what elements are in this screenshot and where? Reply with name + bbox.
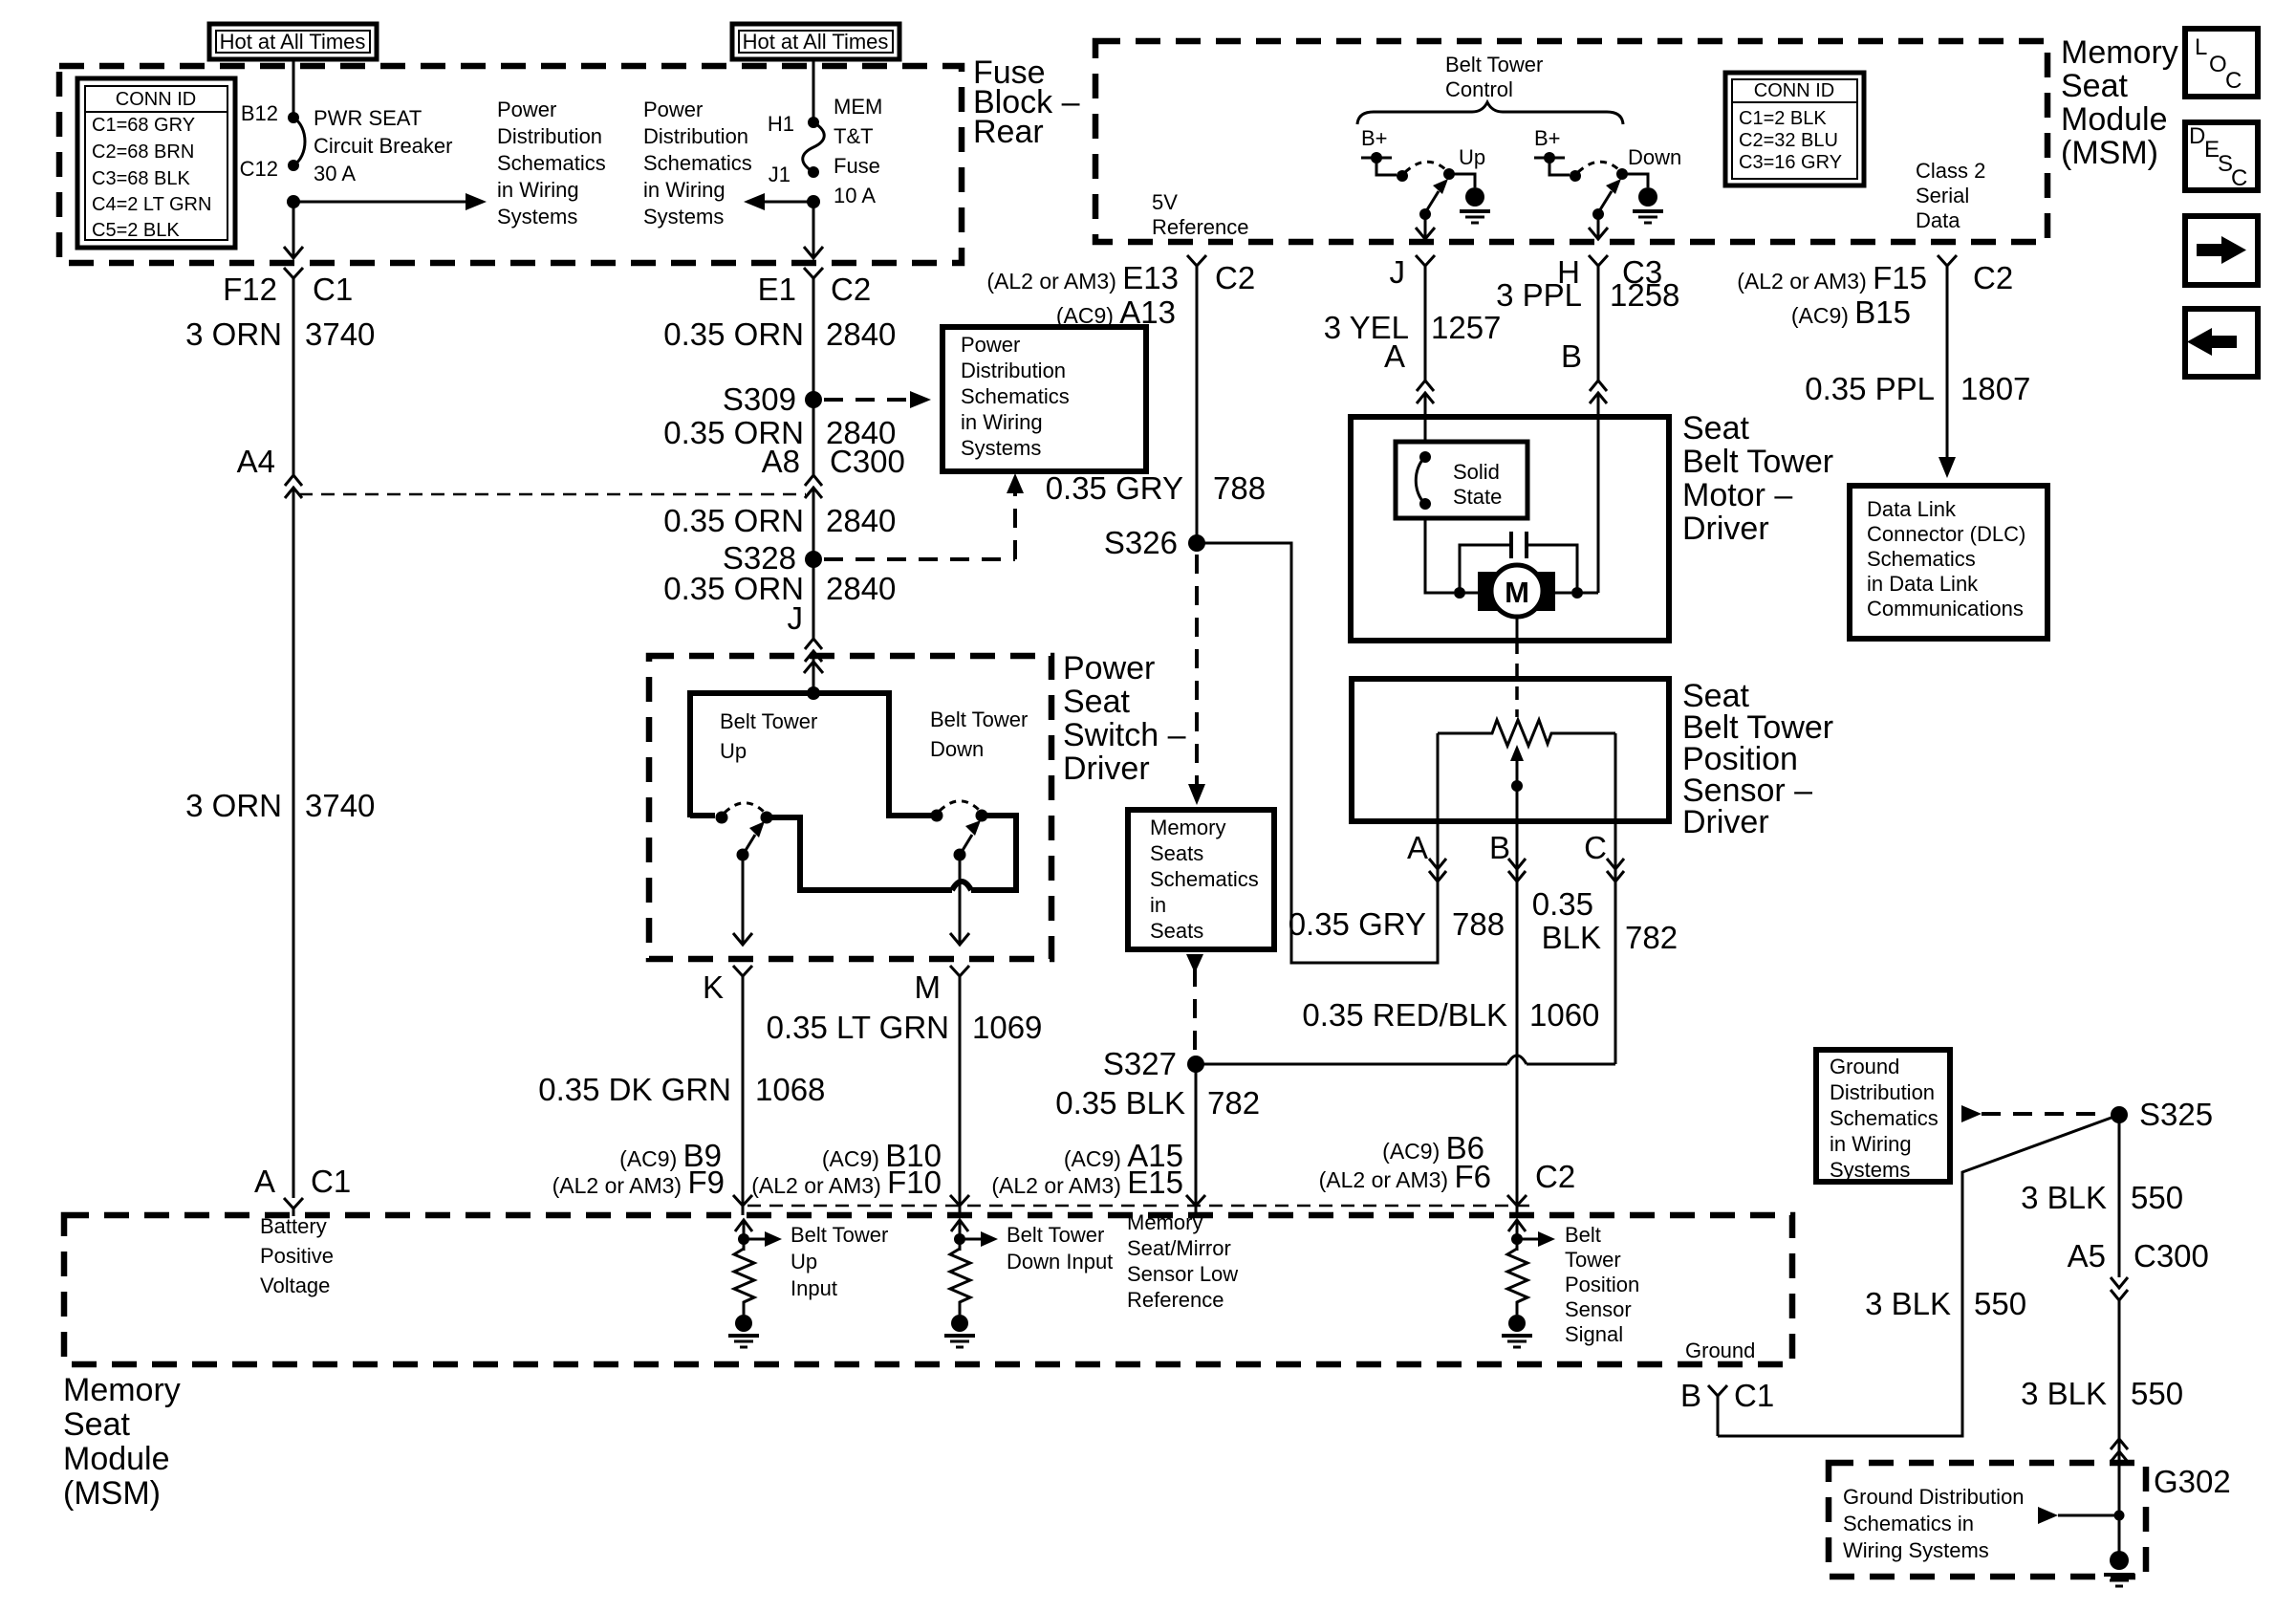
Data Link Connector reference box (1850, 486, 2047, 639)
wire down switch output to M (959, 855, 962, 945)
switch pivot interconnect with hop (767, 817, 952, 890)
capacitor across motor (1460, 532, 1577, 593)
svg-text:0.35 RED/BLK: 0.35 RED/BLK (1302, 997, 1507, 1033)
svg-text:S309: S309 (723, 381, 796, 417)
Memory Seat Module top dashed box (1095, 41, 2047, 242)
connector C3 pin J symbol (1416, 255, 1435, 382)
connector chevrons sensor pin A (1429, 859, 1446, 882)
svg-text:L: L (2195, 34, 2207, 60)
svg-text:3 PPL: 3 PPL (1496, 277, 1582, 313)
wire A into motor box (1424, 393, 1427, 442)
connector chevrons on yellow wire A (1417, 381, 1434, 403)
dashed wire S326 to memory seats reference (1195, 555, 1199, 786)
svg-text:J: J (1390, 254, 1406, 290)
mechanical link motor to position sensor (dashed) (1515, 641, 1519, 717)
circuit breaker PWR SEAT 30A (288, 112, 305, 171)
arrow below memory seats box (1186, 954, 1203, 973)
svg-text:C1: C1 (1734, 1378, 1774, 1413)
svg-text:0.35 ORN: 0.35 ORN (663, 571, 804, 606)
svg-text:Up: Up (1459, 145, 1485, 169)
dashed wire memory seats to S327 (1193, 968, 1197, 1052)
arrow tap inside G302 (2038, 1507, 2125, 1524)
svg-text:M: M (1505, 576, 1529, 609)
svg-text:Belt Tower: Belt Tower (1445, 53, 1543, 76)
svg-text:C300: C300 (830, 444, 905, 479)
belt tower down input: resistor (950, 1249, 970, 1315)
motor left node (1454, 587, 1465, 599)
connector pin K symbol (733, 966, 752, 1206)
down switch wire to ground (1622, 174, 1648, 187)
svg-text:C5=2 BLK: C5=2 BLK (92, 220, 180, 241)
svg-text:0.35 GRY: 0.35 GRY (1289, 906, 1426, 942)
svg-text:2840: 2840 (826, 571, 896, 606)
down switch fixed contact (931, 810, 943, 822)
svg-text:Belt Tower: Belt Tower (930, 708, 1028, 731)
motor M (1460, 565, 1571, 617)
dashed arrow S309 to power distribution box (824, 391, 931, 408)
svg-text:Belt Tower: Belt Tower (720, 709, 817, 733)
wire S326 to sensor A feed (1197, 542, 1291, 545)
svg-text:550: 550 (2131, 1376, 2183, 1411)
svg-text:A5: A5 (2068, 1238, 2106, 1274)
wire motor right to B (1577, 592, 1598, 595)
svg-text:550: 550 (2131, 1180, 2183, 1215)
svg-text:3 BLK: 3 BLK (2021, 1376, 2107, 1411)
Hot at All Times label box (left) (209, 24, 377, 59)
open arrow at switch exit K (733, 933, 752, 945)
up switch fixed contact (716, 812, 728, 824)
svg-text:0.35 DK GRN: 0.35 DK GRN (538, 1072, 731, 1107)
svg-text:3 BLK: 3 BLK (1865, 1286, 1951, 1321)
connector C2 pin F6 symbol (1507, 1195, 1527, 1215)
wire S327 to sensor C with hop over B (1196, 1056, 1615, 1064)
open arrow at fuse block exit (284, 247, 303, 258)
position sensor signal input: arrow up (1508, 1220, 1526, 1251)
down switch movable arm (1599, 179, 1621, 211)
svg-text:F12: F12 (223, 272, 277, 307)
arrow into DLC box (1939, 457, 1956, 478)
svg-text:550: 550 (1974, 1286, 2026, 1321)
svg-text:1807: 1807 (1960, 371, 2030, 406)
svg-text:3 ORN: 3 ORN (185, 316, 282, 352)
LOC nav box (2185, 29, 2258, 97)
svg-text:C1=2 BLK: C1=2 BLK (1739, 108, 1827, 129)
Seat Belt Tower Position Sensor box (1352, 679, 1669, 821)
Power Seat Switch dashed box (649, 656, 1051, 959)
belt tower up input: ground (728, 1315, 759, 1347)
open arrow at switch exit M (950, 933, 969, 945)
svg-text:C2: C2 (831, 272, 871, 307)
down switch pivot contact (1616, 168, 1628, 180)
DESC nav box (2185, 122, 2258, 191)
B+ terminal (down switch) (1534, 152, 1570, 175)
svg-text:0.35: 0.35 (1532, 886, 1593, 922)
connector C2 pin E1 symbol (804, 268, 823, 316)
belt tower down input node (954, 1233, 965, 1245)
CONN ID table (MSM) (1725, 73, 1864, 185)
motor output shaft wire (1516, 617, 1519, 641)
connector pin M symbol (950, 966, 969, 1206)
down switch dashed arc (940, 801, 979, 811)
svg-text:1258: 1258 (1610, 277, 1679, 313)
Solid State box (1396, 442, 1527, 518)
junction node on breaker output (287, 195, 300, 208)
svg-text:1060: 1060 (1529, 997, 1599, 1033)
svg-text:C2: C2 (1535, 1159, 1575, 1194)
wire from Hot box 1 down to breaker (292, 59, 295, 118)
svg-text:A: A (1384, 338, 1405, 374)
svg-text:C2=68 BRN: C2=68 BRN (92, 142, 194, 163)
belt tower up input: arrow right (744, 1231, 782, 1247)
svg-text:B12: B12 (241, 101, 278, 125)
wire sensor C down to S327 run (1614, 821, 1617, 1064)
splice S327 (1187, 1056, 1204, 1073)
svg-text:0.35 PPL: 0.35 PPL (1805, 371, 1935, 406)
svg-text:S327: S327 (1103, 1046, 1177, 1081)
up switch pivot contact (761, 812, 773, 824)
junction node on fuse output (807, 195, 820, 208)
motor right node (1571, 587, 1583, 599)
up switch pivot contact (1443, 168, 1455, 180)
svg-text:K: K (703, 969, 724, 1005)
belt tower up input node (738, 1233, 749, 1245)
svg-text:S326: S326 (1104, 525, 1178, 560)
svg-text:B+: B+ (1361, 126, 1388, 150)
svg-text:0.35 BLK: 0.35 BLK (1055, 1085, 1185, 1121)
connector C2 pin F15 symbol (1938, 255, 1957, 457)
svg-text:B+: B+ (1534, 126, 1561, 150)
dashed wire S328 to power distribution box with up arrow (824, 473, 1024, 559)
up switch dashed actuation arc (1405, 162, 1445, 172)
svg-text:0.35 ORN: 0.35 ORN (663, 503, 804, 538)
svg-text:Hot at All Times: Hot at All Times (220, 30, 366, 54)
svg-text:C3=16 GRY: C3=16 GRY (1739, 152, 1842, 173)
svg-text:H1: H1 (768, 112, 794, 136)
down switch arm node (1592, 208, 1604, 220)
connector C2 pin F9 symbol (733, 1195, 752, 1215)
dashed arrow ground distribution to S325 (1961, 1105, 2108, 1122)
ground symbol (down switch) (1633, 187, 1663, 223)
sensor lead A inside box (1437, 733, 1440, 821)
splice S325 (2111, 1106, 2128, 1123)
svg-text:2840: 2840 (826, 316, 896, 352)
ground symbol (up switch) (1460, 187, 1490, 223)
wire arrow to power distribution (right) (293, 193, 487, 210)
switch feed rail (690, 693, 931, 817)
svg-text:State: State (1453, 485, 1502, 509)
position sensor resistor element (1438, 720, 1615, 746)
svg-text:CONN ID: CONN ID (1754, 80, 1834, 101)
wire 3 ORN 3740 lower (292, 488, 295, 1198)
connector A5 chevrons (C300) (2111, 1277, 2128, 1300)
wire sensor A to S326 run (1197, 543, 1438, 963)
connector C1 pin B symbol (1708, 1385, 1727, 1436)
svg-text:C1: C1 (311, 1164, 351, 1199)
svg-text:3740: 3740 (305, 788, 375, 823)
down switch pivot contact (976, 810, 988, 822)
svg-text:A8: A8 (762, 444, 800, 479)
sensor lead C inside box (1614, 733, 1617, 821)
wire from Hot box 2 down to fuse (812, 59, 815, 122)
down switch dashed actuation arc (1578, 162, 1618, 172)
svg-text:C3=68 BLK: C3=68 BLK (92, 168, 191, 189)
svg-text:M: M (915, 969, 942, 1005)
Ground Distribution Schematics reference box (1816, 1050, 1950, 1182)
svg-text:S325: S325 (2139, 1097, 2213, 1132)
Power Distribution Schematics reference box (942, 327, 1146, 471)
Memory Seats Schematics reference box (1128, 810, 1274, 949)
svg-text:C2: C2 (1973, 260, 2013, 295)
svg-text:3 BLK: 3 BLK (2021, 1180, 2107, 1215)
connector chevrons on purple wire B (1590, 381, 1607, 403)
svg-text:0.35 LT GRN: 0.35 LT GRN (767, 1010, 949, 1045)
switch feed node (807, 686, 820, 700)
connector chevrons sensor pin B (1508, 859, 1526, 882)
feed wire to switch common (812, 662, 815, 693)
sensor wiper arrow (1510, 745, 1524, 821)
svg-text:Control: Control (1445, 77, 1513, 101)
svg-text:Down: Down (1628, 145, 1681, 169)
svg-text:788: 788 (1452, 906, 1505, 942)
connector C2 dashed boundary line (747, 1205, 1529, 1208)
svg-text:C4=2 LT GRN: C4=2 LT GRN (92, 194, 211, 215)
fuse MEM T&amp;T 10A (803, 117, 825, 178)
svg-text:A: A (254, 1164, 275, 1199)
svg-text:Hot at All Times: Hot at All Times (743, 30, 889, 54)
wire into power seat switch (812, 651, 815, 693)
up switch arm node (737, 849, 749, 861)
Belt Tower Control brace (1357, 102, 1623, 124)
connector A8 chevrons (C300) (805, 475, 822, 498)
svg-text:1257: 1257 (1431, 310, 1501, 345)
Seat Belt Tower Motor box (1351, 417, 1669, 641)
belt tower up input: arrow up (735, 1220, 752, 1251)
Memory Seat Module bottom dashed box (64, 1215, 1792, 1364)
ground symbol G302 (2104, 1515, 2134, 1586)
svg-text:C2: C2 (1215, 260, 1255, 295)
svg-text:Ground: Ground (1685, 1339, 1755, 1362)
open arrow at fuse block exit (E1) (804, 247, 823, 258)
connector chevrons at switch pin J (805, 639, 822, 662)
wire arrow to power distribution (left) (744, 193, 813, 210)
feed arrow inside switch box (804, 662, 823, 673)
svg-text:A4: A4 (237, 444, 275, 479)
ground wire B C1 to S325 (1718, 1115, 2119, 1436)
svg-text:0.35 GRY: 0.35 GRY (1046, 470, 1183, 506)
svg-text:J: J (788, 600, 804, 636)
down switch arm node (954, 849, 966, 861)
wire up switch output to K (742, 855, 745, 945)
svg-text:BatteryPositiveVoltage: BatteryPositiveVoltage (260, 1214, 334, 1297)
svg-text:Down: Down (930, 737, 984, 761)
solid state switch contacts (1416, 451, 1431, 510)
svg-text:Up: Up (720, 739, 747, 763)
connector C2 pin F10 symbol (950, 1195, 969, 1215)
dashed connector line C300 A4 to A8 (299, 493, 806, 496)
position sensor signal input: ground (1502, 1315, 1532, 1347)
position sensor signal input: arrow right (1517, 1231, 1555, 1247)
svg-text:1069: 1069 (972, 1010, 1042, 1045)
svg-text:O: O (2209, 52, 2227, 77)
svg-text:2840: 2840 (826, 503, 896, 538)
CONN ID table (fuse block) (77, 78, 235, 248)
wire 0.35 ORN 2840 (1) (812, 316, 815, 400)
arrow into memory seats box (1188, 784, 1205, 805)
svg-text:Solid: Solid (1453, 460, 1500, 484)
belt tower down input: arrow up (951, 1220, 968, 1251)
svg-text:782: 782 (1625, 920, 1678, 955)
left-arrow nav box (2185, 309, 2258, 377)
wire down from junction to fuse block edge (292, 202, 295, 256)
svg-text:C2=32 BLU: C2=32 BLU (1739, 130, 1838, 151)
wire from down switch down to MSM edge (1597, 214, 1600, 237)
up switch movable arm (745, 821, 765, 852)
wire solid state to motor (1425, 518, 1454, 593)
Hot at All Times label box (right) (732, 24, 899, 59)
connector C1 pin A symbol (284, 1198, 303, 1216)
svg-text:C1=68 GRY: C1=68 GRY (92, 115, 195, 136)
G302 dashed box (1829, 1463, 2146, 1577)
svg-text:J1: J1 (769, 163, 791, 186)
position sensor signal input node (1511, 1233, 1523, 1245)
svg-text:C: C (2231, 165, 2247, 191)
connector C1 pin F12 symbol (284, 268, 303, 316)
splice S326 (1188, 534, 1205, 552)
wire S325 down to C300 (2118, 1115, 2121, 1277)
wire C300 down to G302 (2118, 1300, 2121, 1515)
wire 3 ORN 3740 upper (292, 316, 295, 475)
wire sensor B down to C2 (1516, 821, 1519, 1206)
wire 0.35 ORN 2840 (4) (812, 559, 815, 639)
svg-text:B: B (1489, 830, 1510, 865)
down switch movable arm (962, 820, 981, 852)
svg-text:A: A (1407, 830, 1428, 865)
svg-text:E1: E1 (758, 272, 796, 307)
down switch fixed contact (1570, 170, 1581, 182)
up switch wire to ground (1449, 174, 1475, 187)
belt tower down input: arrow right (960, 1231, 998, 1247)
svg-text:3740: 3740 (305, 316, 375, 352)
connector A4 chevrons (C300) (285, 475, 302, 498)
svg-text:1068: 1068 (755, 1072, 825, 1107)
open arrow at MSM exit (H) (1589, 228, 1608, 239)
belt tower up input: resistor (734, 1249, 754, 1315)
splice S309 (805, 391, 822, 408)
svg-text:782: 782 (1207, 1085, 1260, 1121)
wire 0.35 ORN 2840 (2) (812, 400, 815, 475)
svg-text:B: B (1561, 338, 1582, 374)
svg-text:788: 788 (1213, 470, 1266, 506)
up switch fixed contact (1397, 170, 1408, 182)
right-arrow nav box (2185, 216, 2258, 285)
svg-text:D: D (2189, 123, 2205, 149)
up switch arm node (1419, 208, 1431, 220)
svg-text:C1: C1 (313, 272, 353, 307)
connector C2 pin E13 symbol (1187, 255, 1206, 543)
connector C3 pin H symbol (1589, 255, 1608, 382)
svg-text:C12: C12 (240, 157, 278, 181)
wire down from fuse to fuse block edge (812, 202, 815, 256)
connector C2 pin E15 symbol (1186, 1195, 1205, 1215)
svg-text:C: C (1584, 830, 1607, 865)
up switch movable arm (1426, 179, 1448, 211)
svg-text:CONN ID: CONN ID (116, 89, 196, 110)
Fuse Block - Rear dashed box (59, 66, 962, 263)
svg-text:C300: C300 (2134, 1238, 2209, 1274)
open arrow at MSM exit (J) (1416, 228, 1435, 239)
B+ terminal (up switch) (1361, 152, 1397, 175)
svg-text:B: B (1680, 1378, 1701, 1413)
connector chevrons sensor pin C (1607, 859, 1624, 882)
splice S328 (805, 551, 822, 568)
wire 0.35 ORN 2840 (3) (812, 488, 815, 559)
svg-text:0.35 ORN: 0.35 ORN (663, 316, 804, 352)
wire S327 down to connector C2 pin (1195, 1064, 1198, 1206)
up switch fixed contact lead (690, 813, 715, 818)
connector chevrons into G302 (2111, 1439, 2128, 1462)
svg-text:G302: G302 (2154, 1464, 2231, 1499)
wire from up switch down to MSM edge (1424, 214, 1427, 237)
svg-text:3 ORN: 3 ORN (185, 788, 282, 823)
position sensor signal input: resistor (1507, 1249, 1527, 1315)
wire B into motor box (1597, 393, 1600, 593)
up switch dashed arc (725, 803, 764, 813)
belt tower down input: ground (944, 1315, 975, 1347)
svg-text:C: C (2225, 68, 2242, 94)
svg-text:BLK: BLK (1542, 920, 1601, 955)
